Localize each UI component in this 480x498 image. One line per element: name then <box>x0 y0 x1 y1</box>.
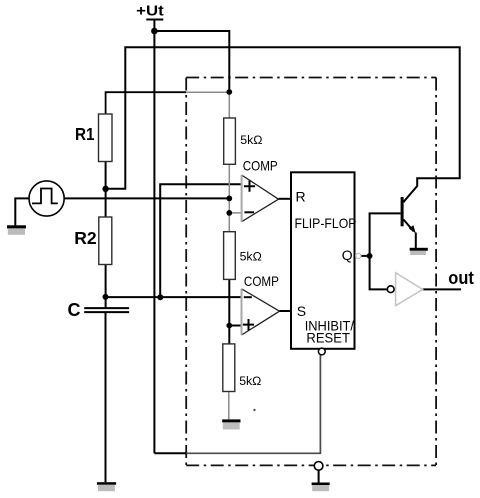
Q output bubble <box>356 253 361 258</box>
wire R1 top node inside box <box>186 91 229 93</box>
resistor 5k1 <box>224 118 236 164</box>
pulse source V1 <box>29 181 64 216</box>
ground at bottom pin <box>312 483 330 486</box>
ground at 5k3 <box>222 419 240 422</box>
inhibit/reset pin bubble <box>318 348 325 355</box>
op-amp comparator COMP1 <box>242 175 279 222</box>
wire chain between 5k2 and 5k3 <box>228 279 230 344</box>
wire trigger line from pulse source to divider node <box>64 197 229 199</box>
transistor Q1 emitter with arrow <box>404 220 414 232</box>
transistor Q1 base bar <box>401 197 404 226</box>
flip-flop box U1 <box>291 172 355 348</box>
svg-text:COMP: COMP <box>244 273 279 289</box>
wire lower comparator plus input <box>229 325 241 327</box>
svg-text:FLIP-FLOP: FLIP-FLOP <box>295 215 357 231</box>
inverter buffer <box>396 273 423 306</box>
inverter input bubble <box>387 286 394 293</box>
resistor R1 <box>99 114 113 162</box>
stray ink speck <box>253 409 255 411</box>
node comp2 plus dot <box>226 323 232 329</box>
wire 5k3 bottom to ground <box>228 392 230 420</box>
wire R1 top to chain node (outside) <box>106 92 187 114</box>
wire ground pin stub below border <box>318 470 320 482</box>
resistor 5k3 <box>223 344 235 392</box>
wire comparator2 output to S <box>280 310 292 312</box>
svg-text:R1: R1 <box>75 124 95 144</box>
wire Q bubble to junction <box>361 255 370 257</box>
capacitor C <box>84 308 129 312</box>
svg-text:+Ut: +Ut <box>136 3 164 20</box>
wire Vcc dot to 5k chain top <box>154 31 229 92</box>
svg-text:out: out <box>448 268 474 288</box>
resistor R2 <box>99 217 112 265</box>
node Q junction dot <box>367 253 373 259</box>
wire chain top 5k1 link <box>228 92 230 118</box>
wire reset row horizontal outside box <box>154 452 186 454</box>
wire threshold line (cap top) to lower comparator minus <box>106 296 242 298</box>
node trigger/divider dot <box>226 196 232 202</box>
wire inverter output to out <box>423 288 461 290</box>
wire Q junction to transistor base and inverter input <box>370 213 401 289</box>
wire R1 bottom through junction to R2 top <box>105 162 107 218</box>
wire capacitor bottom to ground <box>105 312 107 482</box>
wire chain 5k1 bottom to 5k2 top <box>228 164 230 231</box>
svg-text:5kΩ: 5kΩ <box>240 250 262 264</box>
node Vcc dot <box>151 28 158 35</box>
ground at capacitor <box>97 482 116 485</box>
node R1/R2 junction dot <box>102 186 108 192</box>
svg-text:RESET: RESET <box>306 330 350 346</box>
wire pulse source to ground <box>15 198 29 225</box>
node chain top dot <box>226 89 232 95</box>
wire reset row inside box to INHIBIT pin <box>186 355 320 453</box>
node comp1 minus dot <box>226 210 232 216</box>
node threshold dot <box>157 294 163 300</box>
IC boundary dash-dot box <box>186 77 436 79</box>
node cap top dot <box>103 294 109 300</box>
svg-text:5kΩ: 5kΩ <box>239 374 261 388</box>
svg-text:Q: Q <box>342 247 353 263</box>
svg-text:R: R <box>296 189 306 205</box>
ground at transistor emitter <box>410 248 428 251</box>
wire discharge path: R1/R2 junction up over to transistor collector <box>106 47 460 202</box>
wire +Ut vertical down to reset row <box>153 20 155 454</box>
wire upper comparator minus input <box>229 212 241 214</box>
svg-text:R2: R2 <box>74 228 97 248</box>
op-amp comparator COMP2 <box>242 289 280 335</box>
svg-text:C: C <box>68 300 81 320</box>
svg-text:COMP: COMP <box>243 158 278 174</box>
svg-text:5kΩ: 5kΩ <box>240 133 262 147</box>
ground pin circle on border <box>314 462 323 471</box>
ground at pulse source <box>7 225 26 228</box>
resistor 5k2 <box>224 232 236 280</box>
wire R2 bottom to capacitor <box>105 265 107 309</box>
wire threshold to upper comparator plus <box>160 184 241 297</box>
wire comparator1 output to R <box>279 198 292 200</box>
